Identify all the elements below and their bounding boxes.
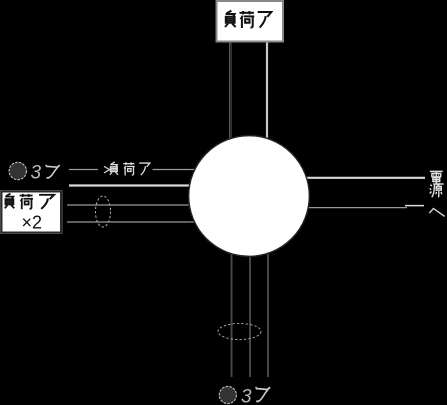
junction box (outlet box) [189, 136, 310, 257]
svg-text:3: 3 [31, 163, 42, 184]
label 負荷ア on wire L1 [110, 162, 118, 175]
wire bottom 1 [231, 250, 233, 377]
wire top black edge highlight [229, 42, 231, 148]
label 電源へ (to power source, vertical) [430, 171, 443, 184]
wire left L1 to switch (segment before label) [69, 169, 98, 171]
wire bottom 2 [249, 254, 251, 377]
wire left L3 [67, 204, 205, 206]
cable marker ellipse on left pair [96, 196, 111, 227]
wire right R1 white (to power) [295, 177, 425, 179]
label ア (left) [46, 165, 60, 178]
wire top white (from load box to junction box) [266, 42, 268, 152]
svg-text:×2: ×2 [22, 212, 43, 232]
load box text 負荷ア [5, 194, 15, 209]
wire right R2 (to power) [295, 207, 407, 209]
label ア (bottom) [256, 387, 271, 401]
wire top black (from load box to junction box) [230, 42, 232, 148]
wire left L2 white [69, 184, 205, 186]
arrowhead to load label [104, 166, 110, 173]
wire left L1 (segment after label, into junction box) [153, 169, 206, 171]
connection dot left [9, 162, 26, 179]
load box A text 負荷ア [225, 11, 236, 27]
load box A x2 (left) outer halo [1, 191, 62, 234]
wire right R2 white end segment [405, 205, 424, 207]
connection dot bottom [219, 386, 236, 403]
svg-text:3: 3 [241, 387, 252, 405]
wire left L4 [67, 221, 205, 223]
load box A x2 (left) [2, 192, 62, 233]
wire bottom 3 [267, 250, 269, 377]
cable marker ellipse on bottom pair [218, 324, 261, 340]
load box A (top) [217, 1, 284, 42]
